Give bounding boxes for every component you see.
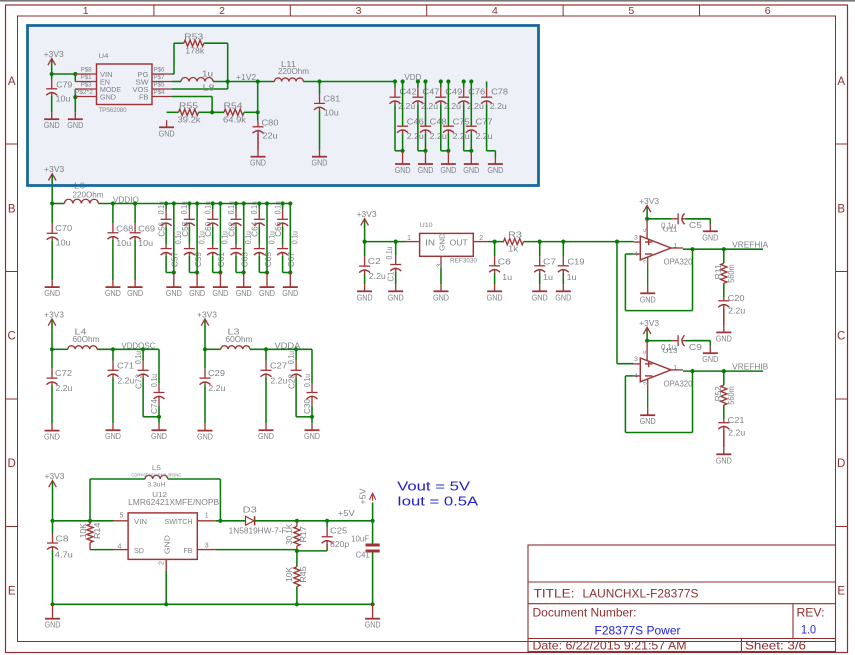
junction (288, 201, 292, 205)
ground (C20) (716, 325, 732, 343)
svg-text:5: 5 (628, 5, 634, 17)
junction (281, 201, 285, 205)
svg-text:C73: C73 (135, 374, 144, 389)
svg-text:+3V3: +3V3 (197, 310, 217, 319)
capacitor C70 10u (47, 204, 73, 281)
svg-text:C56: C56 (158, 222, 167, 237)
svg-text:+3V3: +3V3 (44, 165, 64, 174)
svg-text:B: B (837, 203, 845, 215)
capacitor C60 0.1u (204, 201, 219, 237)
svg-text:GND: GND (44, 433, 60, 442)
svg-text:GND: GND (702, 233, 718, 242)
junction (226, 79, 230, 83)
svg-text:178k: 178k (185, 46, 205, 55)
svg-text:GND: GND (151, 432, 167, 441)
ground (C19) (555, 284, 571, 302)
svg-text:GND: GND (127, 289, 143, 298)
junction (218, 201, 222, 205)
junction (256, 79, 260, 83)
svg-text:GND: GND (463, 166, 479, 175)
svg-text:LAUNCHXL-F28377S: LAUNCHXL-F28377S (583, 587, 699, 601)
svg-text:R54: R54 (224, 102, 244, 111)
svg-text:GND: GND (532, 293, 548, 302)
svg-text:TPS62080: TPS62080 (99, 107, 127, 114)
junction (111, 201, 115, 205)
svg-text:4: 4 (634, 373, 638, 380)
junction (50, 201, 54, 205)
junction (401, 149, 405, 153)
wire output (683, 370, 763, 372)
svg-text:0.1u: 0.1u (150, 374, 159, 387)
wire U12 gnd (165, 571, 167, 604)
svg-text:1u: 1u (502, 273, 512, 282)
svg-text:Vout = 5V: Vout = 5V (397, 480, 471, 494)
wire U10 gnd (440, 268, 442, 284)
svg-text:C69: C69 (138, 224, 155, 233)
svg-text:1: 1 (674, 243, 678, 250)
svg-text:GND: GND (357, 293, 373, 302)
svg-text:60Ohm: 60Ohm (73, 335, 100, 344)
svg-text:GND: GND (44, 121, 60, 130)
wire EN tie (74, 74, 77, 82)
svg-text:C5: C5 (689, 221, 703, 230)
svg-text:F28377S Power: F28377S Power (595, 624, 681, 638)
capacitor C29 2.2u (200, 349, 226, 423)
svg-text:0.1u: 0.1u (180, 201, 189, 214)
svg-text:GND: GND (487, 166, 503, 175)
svg-text:Iout = 0.5A: Iout = 0.5A (397, 495, 479, 509)
svg-text:1u: 1u (202, 70, 214, 79)
svg-text:L8: L8 (203, 84, 216, 93)
svg-text:OPA320: OPA320 (664, 380, 693, 389)
svg-text:SD: SD (134, 546, 144, 555)
svg-text:GND: GND (282, 289, 298, 298)
junction (256, 110, 260, 114)
svg-text:1: 1 (407, 235, 411, 242)
capacitor C57 0.1u (161, 231, 184, 272)
capacitor C79 10u (46, 74, 73, 112)
svg-text:10K: 10K (79, 522, 88, 538)
junction (211, 201, 215, 205)
ground (259, 273, 275, 299)
supply +3V3 (VDDA) (197, 310, 217, 327)
capacitor C64 0.1u (250, 201, 265, 237)
svg-text:1u: 1u (567, 273, 577, 282)
vreg U10 REF3030 (406, 222, 488, 268)
svg-text:+3V3: +3V3 (45, 472, 65, 481)
junction (469, 149, 473, 153)
svg-text:R52: R52 (714, 386, 723, 401)
svg-text:22u: 22u (263, 132, 278, 141)
svg-text:0.1u: 0.1u (250, 201, 259, 214)
svg-text:0.1u: 0.1u (385, 247, 394, 260)
resistor R55 39.2k (178, 102, 202, 125)
wire VDD rail drop (395, 104, 403, 151)
svg-text:Date: 6/22/2015 9:21:57 AM: Date: 6/22/2015 9:21:57 AM (533, 639, 687, 653)
svg-text:GND: GND (555, 293, 571, 302)
svg-text:C77: C77 (476, 117, 493, 126)
junction (257, 201, 261, 205)
resistor R14 10K (79, 521, 114, 550)
wire FB row (216, 549, 328, 551)
junction (561, 240, 565, 244)
svg-text:GND: GND (716, 456, 732, 465)
svg-text:GND: GND (312, 159, 328, 168)
svg-text:GND: GND (67, 121, 83, 130)
svg-text:R53: R53 (184, 32, 204, 41)
junction (265, 201, 269, 205)
svg-text:GND: GND (159, 129, 175, 138)
svg-text:0.1u: 0.1u (273, 201, 282, 214)
inductor L11 220Ohm (275, 60, 310, 82)
supply +3V3 (VDDOSC) (44, 310, 64, 327)
svg-text:REV:: REV: (797, 606, 825, 620)
svg-text:C68: C68 (116, 224, 133, 233)
svg-text:10u: 10u (138, 239, 153, 248)
svg-text:3: 3 (634, 234, 638, 241)
svg-text:0.1u: 0.1u (303, 374, 312, 387)
svg-text:GND: GND (395, 166, 411, 175)
junction (203, 347, 207, 351)
op IC U4 TPS62080 (75, 53, 172, 114)
ground (R55) (159, 112, 179, 138)
wire +input feed U13 (617, 242, 634, 364)
svg-text:2.2u: 2.2u (117, 377, 134, 386)
ground (487, 157, 503, 175)
junction (371, 602, 375, 606)
junction (722, 369, 726, 373)
svg-text:C9: C9 (689, 343, 703, 352)
capacitor C76 2.2u (458, 82, 485, 111)
wire L8 to +1V2 node (213, 81, 258, 83)
svg-text:P$7: P$7 (154, 74, 165, 81)
junction (446, 149, 450, 153)
svg-text:IN: IN (425, 239, 435, 248)
svg-text:2.2u: 2.2u (728, 428, 745, 437)
svg-text:820p: 820p (330, 540, 349, 549)
junction (462, 79, 466, 83)
svg-text:C58: C58 (181, 222, 190, 237)
svg-text:VREFHIB: VREFHIB (732, 363, 769, 372)
junction (423, 149, 427, 153)
junction (88, 519, 92, 523)
svg-text:10u: 10u (56, 239, 71, 248)
svg-text:GND: GND (44, 289, 60, 298)
wire +3V3 to pin5/C5 (647, 213, 672, 219)
svg-text:GND: GND (433, 293, 449, 302)
junction (363, 240, 367, 244)
svg-text:0.1u: 0.1u (291, 231, 300, 244)
wire VDD rail drop (418, 104, 426, 151)
wire C78 to GND (487, 104, 496, 157)
svg-text:C29: C29 (208, 369, 225, 378)
ground (U11 pin2) (640, 286, 656, 304)
junction (310, 415, 314, 419)
svg-text:1u: 1u (543, 273, 553, 282)
supply +3V3 (U12) (45, 472, 65, 489)
junction (469, 79, 473, 83)
svg-text:GND: GND (258, 432, 274, 441)
capacitor C8 4.7u (47, 521, 73, 605)
svg-text:P$3: P$3 (81, 81, 92, 88)
ground (C9) (702, 346, 718, 364)
junction (371, 519, 375, 523)
junction (288, 270, 292, 274)
capacitor C63 0.1u (231, 231, 254, 272)
svg-text:GND: GND (702, 355, 718, 364)
supply +3V3 (VDDIO) (44, 165, 64, 182)
junction (439, 79, 443, 83)
wire VDD rail drop (464, 104, 472, 151)
svg-text:GND: GND (166, 289, 182, 298)
svg-text:R11: R11 (714, 264, 723, 279)
boost IC U12 LMR62421XMFE/NOPB (114, 490, 220, 571)
junction (325, 519, 329, 523)
svg-text:0.1u: 0.1u (287, 351, 296, 364)
wire series link (212, 226, 214, 244)
ground (C79) (44, 112, 60, 130)
svg-text:GND: GND (365, 621, 381, 630)
wire bypass drop (189, 204, 197, 273)
junction (73, 95, 77, 99)
capacitor C74 0.1u (150, 349, 165, 417)
svg-text:C6: C6 (498, 258, 512, 267)
resistor R53 178k (184, 32, 205, 55)
svg-text:U4: U4 (99, 53, 109, 60)
svg-text:GND: GND (437, 233, 446, 251)
svg-text:C66: C66 (274, 222, 283, 237)
svg-text:GND: GND (418, 166, 434, 175)
capacitor C73 0.1u (134, 349, 148, 417)
junction (264, 347, 268, 351)
ground rail (53, 603, 373, 605)
svg-text:R55: R55 (179, 102, 199, 111)
capacitor C25 820p (322, 521, 350, 549)
svg-text:C48: C48 (430, 117, 447, 126)
ground (C6) (487, 284, 503, 302)
wire +3V3 to pin5/C5 (647, 335, 672, 341)
svg-text:GND: GND (100, 93, 116, 102)
svg-text:39.2k: 39.2k (178, 115, 202, 124)
svg-text:C21: C21 (728, 416, 745, 425)
svg-text:2.2u: 2.2u (728, 306, 745, 315)
svg-text:C72: C72 (55, 369, 72, 378)
supply +3V3 (U4 input) (44, 50, 64, 67)
capacitor C27 2.2u (261, 349, 288, 423)
capacitor C20 2.2u (718, 294, 745, 325)
capacitor C41 10uF polarized (351, 521, 380, 605)
svg-text:L5: L5 (152, 466, 162, 472)
svg-text:6: 6 (765, 5, 771, 17)
svg-text:B: B (8, 203, 16, 215)
svg-text:GND: GND (45, 621, 61, 630)
resistor R3 1k (504, 230, 524, 253)
junction (294, 347, 298, 351)
capacitor C78 2.2u (481, 82, 508, 111)
capacitor C77 2.2u (466, 82, 493, 151)
resistor R11 560m (714, 249, 736, 297)
svg-text:R45: R45 (299, 565, 308, 582)
capacitor C21 2.2u (718, 416, 745, 447)
junction (172, 270, 176, 274)
ground (C70) (44, 280, 60, 298)
wire +1V2 to L11 (258, 81, 275, 83)
svg-text:P$8: P$8 (81, 66, 92, 73)
wire to gnd joint (296, 416, 312, 418)
svg-text:GND: GND (259, 289, 275, 298)
junction (141, 347, 145, 351)
svg-text:C65: C65 (264, 251, 273, 267)
svg-text:FB: FB (184, 546, 193, 555)
supply +3V3 (REF3030) (357, 210, 377, 227)
svg-text:GND: GND (640, 417, 656, 426)
svg-text:2: 2 (643, 259, 650, 263)
svg-text:0.1u: 0.1u (157, 201, 166, 214)
svg-text:2.2u: 2.2u (270, 377, 287, 386)
wire +3V3 to L4 (52, 326, 68, 349)
wire +3V3 to VIN (52, 66, 76, 74)
junction (210, 110, 214, 114)
junction (690, 369, 694, 373)
svg-text:C25: C25 (330, 526, 347, 535)
junction (615, 240, 619, 244)
wire bypass drop (166, 204, 174, 273)
ground (395, 151, 411, 175)
wire OUT to R3 (487, 241, 504, 243)
wire to gnd joint (143, 416, 159, 418)
wire VDD rail drop (441, 104, 449, 151)
wire series link (235, 226, 237, 244)
junction (73, 72, 77, 76)
svg-text:4: 4 (634, 251, 638, 258)
ground (282, 273, 298, 299)
svg-text:10u: 10u (324, 109, 339, 118)
svg-text:R14: R14 (93, 522, 102, 539)
svg-text:0.1u: 0.1u (204, 201, 213, 214)
junction (50, 519, 54, 523)
svg-text:4: 4 (492, 5, 498, 17)
wire +3V3 to U10 IN (365, 226, 406, 242)
svg-text:GND: GND (189, 289, 205, 298)
svg-text:1: 1 (83, 5, 89, 17)
junction (111, 347, 115, 351)
svg-text:C: C (8, 331, 16, 343)
svg-text:C64: C64 (251, 221, 260, 237)
svg-text:U11: U11 (663, 224, 678, 233)
svg-text:10uF: 10uF (351, 535, 369, 544)
capacitor C19 1u (558, 242, 585, 285)
svg-text:2: 2 (159, 561, 166, 565)
junction (645, 339, 649, 343)
svg-text:560m: 560m (727, 386, 736, 405)
wire series link (282, 226, 284, 244)
svg-text:+3V3: +3V3 (639, 319, 659, 328)
wire GND pin down (74, 97, 76, 112)
capacitor C5 0.1u (661, 213, 710, 230)
inductor L3 60Ohm (221, 328, 253, 350)
junction (416, 79, 420, 83)
svg-text:4.7u: 4.7u (55, 551, 74, 560)
svg-text:VREFHIA: VREFHIA (732, 241, 769, 250)
wire bypass drop (259, 204, 267, 273)
svg-text:GND: GND (487, 293, 503, 302)
svg-text:3: 3 (634, 356, 638, 363)
capacitor C30 0.1u (303, 349, 318, 417)
ground (C5) (702, 224, 718, 242)
ground (189, 273, 205, 299)
junction (493, 240, 497, 244)
capacitor C58 0.1u (180, 201, 195, 237)
capacitor C62 0.1u (227, 201, 242, 237)
svg-text:5: 5 (643, 350, 650, 354)
ground (440, 151, 456, 175)
svg-text:2.2u: 2.2u (430, 132, 447, 141)
svg-text:C2: C2 (368, 257, 382, 266)
ground (C2) (357, 284, 373, 302)
capacitor C48 2.2u (420, 82, 447, 151)
wire R55-R54 (199, 111, 225, 113)
svg-text:+1V2: +1V2 (236, 73, 256, 82)
svg-text:E: E (8, 586, 16, 598)
junction (218, 519, 222, 523)
capacitor C56 0.1u (157, 201, 172, 237)
junction (393, 79, 397, 83)
ground (C80) (250, 150, 266, 168)
wire rail (250, 348, 312, 350)
svg-text:A: A (837, 76, 845, 88)
svg-text:2.2u: 2.2u (476, 132, 493, 141)
svg-text:P$4: P$4 (154, 89, 165, 96)
svg-text:C20: C20 (728, 294, 745, 303)
capacitor C1 0.1u (385, 242, 401, 285)
junction (423, 79, 427, 83)
svg-text:D: D (837, 458, 845, 470)
svg-text:FB: FB (139, 93, 149, 102)
ground (C74) (151, 417, 167, 441)
svg-text:+3V3: +3V3 (44, 310, 64, 319)
ground (166, 273, 182, 299)
ground (C41) (365, 604, 381, 629)
wire R54 to +1V2 column (244, 82, 258, 121)
svg-text:220Ohm: 220Ohm (278, 67, 309, 76)
svg-text:64.9k: 64.9k (223, 115, 247, 124)
supply +5V arrow (358, 488, 375, 521)
junction (645, 217, 649, 221)
svg-text:GND: GND (197, 433, 213, 442)
svg-text:C30: C30 (303, 398, 312, 414)
supply +3V3 (U11) (639, 197, 659, 214)
svg-text:+3V3: +3V3 (44, 50, 64, 59)
capacitor C66 0.1u (273, 201, 288, 237)
ground (C72) (44, 424, 60, 442)
junction (187, 201, 191, 205)
wire bypass drop (213, 204, 221, 273)
junction (242, 201, 246, 205)
wire C5 to gnd (686, 219, 711, 225)
svg-text:C41: C41 (356, 551, 370, 560)
annotation Vout/Iout (397, 480, 479, 509)
svg-text:C81: C81 (323, 94, 340, 103)
inductor L6 220Ohm (64, 182, 103, 204)
ground (C71) (105, 423, 121, 441)
junction (538, 240, 542, 244)
capacitor C9 0.1u (661, 335, 710, 352)
svg-text:+3V3: +3V3 (639, 197, 659, 206)
svg-text:C61: C61 (217, 252, 226, 267)
junction (164, 602, 168, 606)
junction (218, 270, 222, 274)
svg-text:5: 5 (120, 513, 124, 520)
